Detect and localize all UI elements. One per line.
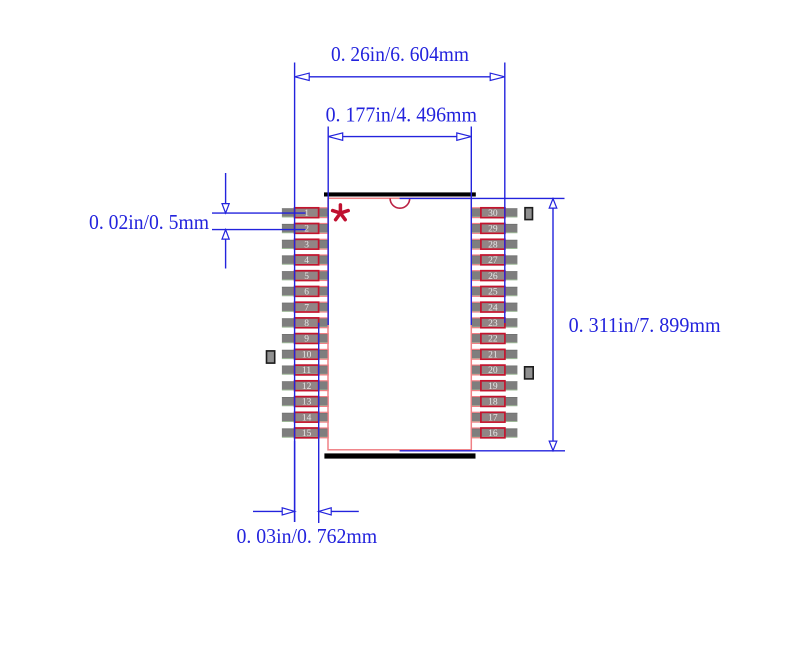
svg-text:20: 20: [488, 366, 498, 376]
pin 10 outline: [295, 349, 329, 359]
pad 30: [481, 208, 505, 218]
pin 5 lead: [282, 272, 328, 280]
svg-text:30: 30: [488, 209, 498, 219]
pin 18 outline: [471, 397, 505, 407]
pin 4 lead: [282, 256, 328, 264]
fiducial marker left: [267, 351, 275, 363]
pad 7: [295, 302, 319, 312]
pad 10: [295, 349, 319, 359]
pin 20 outline: [471, 365, 505, 375]
dimension 0.311in extension line top: [400, 197, 565, 199]
pin1 index notch: [390, 198, 410, 208]
pin 6 outline: [295, 287, 329, 297]
pad 4: [295, 255, 319, 265]
pin 19 outline: [471, 381, 505, 391]
svg-text:22: 22: [488, 335, 498, 345]
pin1 marker asterisk: [333, 205, 349, 220]
dimension 0.177in extension line right: [470, 127, 472, 326]
pin 7 outline: [295, 302, 329, 312]
svg-text:6: 6: [304, 288, 309, 298]
svg-text:23: 23: [488, 319, 498, 329]
pin 23 lead: [472, 319, 518, 327]
dimension 0.02in pointer line pin2: [212, 229, 306, 231]
svg-text:1: 1: [304, 209, 309, 219]
svg-text:0. 02in/0. 5mm: 0. 02in/0. 5mm: [89, 210, 209, 234]
svg-text:24: 24: [488, 303, 498, 313]
pad 2: [295, 224, 319, 234]
pin 2 outline: [295, 224, 329, 234]
pad 25: [481, 287, 505, 297]
pad 29: [481, 224, 505, 234]
pad 15: [295, 428, 319, 438]
pad 13: [295, 397, 319, 407]
pad 9: [295, 334, 319, 344]
dimension 0.26in line: [296, 76, 503, 78]
svg-text:17: 17: [488, 413, 498, 423]
pin 4 outline: [295, 255, 329, 265]
pin 24 lead: [472, 303, 518, 311]
svg-text:11: 11: [302, 366, 311, 376]
pin 25 lead: [472, 287, 518, 296]
pad 12: [295, 381, 319, 391]
svg-text:0. 311in/7. 899mm: 0. 311in/7. 899mm: [569, 313, 721, 337]
pin 27 outline: [471, 255, 505, 265]
pin 17 lead: [472, 413, 518, 421]
pin 26 lead: [472, 272, 518, 280]
svg-text:0. 03in/0. 762mm: 0. 03in/0. 762mm: [237, 524, 378, 548]
svg-text:27: 27: [488, 256, 498, 266]
svg-text:10: 10: [302, 351, 312, 361]
pin 15 outline: [295, 428, 329, 438]
svg-text:25: 25: [488, 288, 498, 298]
pin 25 outline: [471, 287, 505, 297]
fiducial marker right middle: [525, 367, 534, 379]
dimension 0.03in extension line left: [294, 441, 296, 522]
pad 21: [481, 349, 505, 359]
fiducial marker right top: [525, 208, 533, 220]
pin 3 lead: [282, 240, 328, 248]
svg-text:18: 18: [488, 398, 498, 408]
pin 22 lead: [472, 334, 518, 342]
dimension 0.03in right arrow line: [331, 510, 359, 512]
pin 8 outline: [295, 318, 329, 328]
bottom package edge bar: [324, 453, 475, 458]
pad 26: [481, 271, 505, 281]
svg-text:28: 28: [488, 240, 498, 250]
pad 23: [481, 318, 505, 328]
pin 30 outline: [471, 208, 505, 218]
dimension 0.177in line: [330, 136, 471, 138]
pin 13 lead: [282, 397, 328, 405]
pad 1: [295, 208, 319, 218]
pin 12 outline: [295, 381, 329, 391]
dimension 0.03in left arrow line: [253, 510, 282, 512]
pin 29 lead: [472, 224, 518, 232]
pad 27: [481, 255, 505, 265]
pin 22 outline: [471, 334, 505, 344]
dimension 0.02in arrow stem: [225, 173, 227, 205]
pad 5: [295, 271, 319, 281]
svg-text:7: 7: [304, 303, 309, 313]
pin 19 lead: [472, 382, 518, 390]
svg-text:15: 15: [302, 429, 312, 439]
pin 28 outline: [471, 239, 505, 249]
pin 9 outline: [295, 334, 329, 344]
pad 3: [295, 239, 319, 249]
pin 9 lead: [282, 334, 328, 342]
svg-text:8: 8: [304, 319, 309, 329]
svg-text:21: 21: [488, 351, 498, 361]
svg-text:29: 29: [488, 225, 498, 235]
top package edge bar: [324, 192, 476, 196]
svg-text:26: 26: [488, 272, 498, 282]
pin 27 lead: [472, 256, 518, 264]
pad 22: [481, 334, 505, 344]
pin 23 outline: [471, 318, 505, 328]
pad 16: [481, 428, 505, 438]
pin 12 lead: [282, 382, 328, 390]
pin 30 lead: [472, 209, 518, 217]
pin 14 lead: [282, 413, 328, 421]
pin 2 lead: [282, 224, 328, 232]
pin 18 lead: [472, 397, 518, 405]
pin 15 lead: [282, 429, 328, 437]
svg-text:0. 26in/6. 604mm: 0. 26in/6. 604mm: [331, 42, 469, 66]
dimension 0.311in line: [552, 200, 554, 450]
svg-text:16: 16: [488, 429, 498, 439]
pad 8: [295, 318, 319, 328]
svg-text:5: 5: [304, 272, 309, 282]
dimension 0.03in extension line right: [318, 323, 320, 523]
svg-text:4: 4: [304, 256, 309, 266]
pin 20 lead: [472, 366, 518, 374]
pin 3 outline: [295, 239, 329, 249]
dimension 0.177in extension line left: [327, 127, 329, 326]
pin 1 outline: [295, 208, 329, 218]
dimension 0.26in extension line right: [504, 63, 506, 324]
pin 11 outline: [295, 365, 329, 375]
pad 6: [295, 287, 319, 297]
pad 17: [481, 412, 505, 422]
svg-text:12: 12: [302, 382, 312, 392]
pin 7 lead: [282, 303, 328, 311]
pin 13 outline: [295, 397, 329, 407]
pin 24 outline: [471, 302, 505, 312]
pad 11: [295, 365, 319, 375]
pad 19: [481, 381, 505, 391]
pin 10 lead: [282, 350, 328, 358]
pad 24: [481, 302, 505, 312]
svg-text:0. 177in/4. 496mm: 0. 177in/4. 496mm: [326, 103, 478, 127]
svg-text:9: 9: [304, 335, 309, 345]
dimension 0.02in pointer line pin1: [212, 212, 306, 214]
pin 16 lead: [472, 429, 518, 437]
pin 14 outline: [295, 412, 329, 422]
pad 14: [295, 412, 319, 422]
svg-text:13: 13: [302, 398, 312, 408]
pad 20: [481, 365, 505, 375]
pin 17 outline: [471, 412, 505, 422]
pin 11 lead: [282, 366, 328, 374]
svg-text:14: 14: [302, 413, 312, 423]
svg-text:19: 19: [488, 382, 498, 392]
pin 6 lead: [282, 287, 328, 296]
pin 28 lead: [472, 240, 518, 248]
pad 18: [481, 397, 505, 407]
pad 28: [481, 239, 505, 249]
package body U1 outline: [328, 198, 471, 449]
dimension 0.311in extension line bottom: [400, 450, 565, 452]
pin 1 lead: [282, 209, 328, 217]
pin 16 outline: [471, 428, 505, 438]
svg-text:3: 3: [304, 240, 309, 250]
pin 26 outline: [471, 271, 505, 281]
pin 21 lead: [472, 350, 518, 358]
pin 29 outline: [471, 224, 505, 234]
pin 21 outline: [471, 349, 505, 359]
pin 8 lead: [282, 319, 328, 327]
dimension 0.26in extension line left: [294, 63, 296, 523]
pin 5 outline: [295, 271, 329, 281]
